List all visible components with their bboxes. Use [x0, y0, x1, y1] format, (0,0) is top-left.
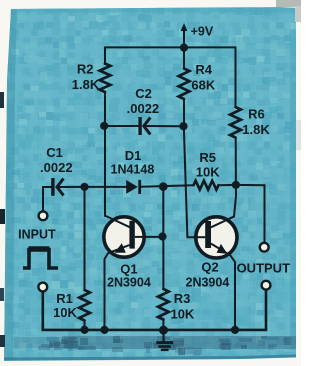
svg-text:2N3904: 2N3904 [107, 276, 151, 290]
wire: C1 right lead to R1 node [57, 186, 85, 188]
wire: R4 branch upper [183, 47, 185, 68]
svg-text:1.8K: 1.8K [72, 77, 100, 92]
svg-text:Q2: Q2 [201, 260, 218, 275]
wire: Q2 emitter to rail [230, 255, 235, 330]
resistor R2 [100, 64, 111, 93]
resistor R5 [194, 181, 219, 190]
wire: R4 bottom to C2 node [183, 99, 185, 126]
wire: R2 bottom to Q1 collector [104, 92, 106, 216]
transistor Q2 emitter arrow [217, 244, 228, 254]
transistor Q1 emitter line inside [108, 245, 130, 253]
capacitor C1 curved plate [57, 179, 64, 196]
transistor Q1 emitter arrow [115, 243, 126, 253]
wire: R2 branch upper [104, 47, 106, 64]
svg-text:.0022: .0022 [40, 160, 73, 175]
junction node C1 / R1 [80, 183, 88, 191]
transistor Q2 circle [196, 217, 237, 258]
wire: R1 bottom to rail [84, 321, 86, 330]
resistor R3 [158, 289, 169, 320]
diode D1 cathode bar [138, 180, 141, 194]
wire: R1 branch from C1 node [84, 187, 86, 290]
wire: Q2 collector lead [211, 185, 236, 227]
junction node rail Q1 emitter [100, 326, 108, 334]
input pulse waveform [23, 250, 58, 269]
wire: R5 to collector node [219, 184, 236, 186]
wire: input lower terminal drop to rail [43, 292, 85, 330]
junction node +9V / R4 [180, 44, 188, 52]
svg-text:C1: C1 [46, 145, 63, 160]
transistor Q1 base line inside [135, 236, 145, 238]
wire: R6 bottom to collector node [235, 138, 237, 185]
transistor Q1 base bar [129, 221, 134, 249]
junction node rail Q2 emitter [231, 326, 239, 334]
wire: C2 left lead [104, 125, 139, 127]
svg-text:10K: 10K [196, 165, 220, 180]
svg-text:10K: 10K [170, 306, 194, 321]
wire: output node to upper terminal [236, 185, 265, 243]
svg-text:.0022: .0022 [127, 101, 160, 116]
svg-text:+9V: +9V [191, 25, 214, 39]
dark lower rim of panel [4, 355, 296, 361]
svg-text:10K: 10K [53, 305, 77, 320]
wire: ground rail [85, 290, 267, 330]
resistor R4 [179, 69, 190, 100]
diode D1 triangle [126, 180, 138, 194]
svg-text:68K: 68K [191, 77, 215, 92]
junction node C2 left / R2 line [100, 122, 108, 130]
terminal output lower [262, 281, 271, 290]
capacitor C1 straight plate [51, 178, 54, 196]
wire: C1 left lead and input terminal drop [43, 187, 51, 211]
junction node rail R1 [80, 326, 88, 334]
svg-text:R5: R5 [199, 150, 216, 165]
transistor Q2 base bar [205, 221, 211, 248]
ghost band wash [62, 336, 296, 349]
capacitor C2 straight plate [138, 117, 141, 135]
wire: Q1 emitter to rail [105, 253, 109, 330]
+9V supply arrow stem [183, 29, 185, 47]
capacitor C2 curved plate [144, 118, 151, 135]
transistor Q1 circle [104, 217, 144, 257]
wire: R6 branch upper [235, 47, 237, 107]
junction node D1 / R5 / R3 line [159, 182, 168, 191]
terminal input lower [38, 283, 47, 292]
wire: C2 right lead [147, 125, 184, 127]
svg-text:R2: R2 [77, 61, 94, 76]
transistor Q2 base line inside [194, 236, 205, 238]
wire: Q1 base lead [135, 236, 164, 238]
wire: D1 cathode to R5 [141, 185, 194, 187]
svg-text:2N3904: 2N3904 [186, 276, 230, 290]
transistor Q2 collector line inside [211, 217, 234, 228]
svg-text:OUTPUT: OUTPUT [237, 261, 291, 276]
svg-text:R3: R3 [174, 291, 191, 306]
terminal output upper [260, 243, 269, 252]
grey blotch top-right margin [276, 0, 301, 7]
ground symbol [162, 330, 164, 342]
svg-text:Q1: Q1 [120, 262, 137, 277]
junction node Q1 base [158, 232, 166, 240]
wire: +9V top rail [105, 46, 236, 48]
wire: R3 bottom to ground rail [162, 320, 164, 331]
junction node R5 / R6 / Q2 collector / output [232, 181, 240, 189]
resistor R6 [230, 107, 241, 138]
svg-text:R1: R1 [56, 291, 73, 306]
transistor Q1 collector line inside [105, 216, 130, 228]
svg-text:D1: D1 [125, 148, 142, 163]
transistor Q2 emitter line inside [211, 244, 230, 256]
wire: Q1 base node vertical to R3 [162, 187, 164, 289]
svg-text:INPUT: INPUT [18, 228, 56, 242]
terminal input upper [39, 211, 48, 220]
wire: Q2 base line from C2/R4 node [184, 126, 206, 237]
svg-text:1.8K: 1.8K [242, 122, 270, 137]
svg-text:C2: C2 [135, 86, 152, 101]
junction node C2 right / R4 / Q2 base [179, 122, 187, 130]
svg-text:1N4148: 1N4148 [111, 163, 155, 177]
wire: R1 node to D1 anode [85, 186, 127, 188]
page margin black marks on left edge [0, 92, 4, 108]
junction node rail ground [159, 326, 168, 335]
+9V arrowhead [181, 23, 188, 31]
svg-text:R4: R4 [195, 62, 212, 77]
resistor R1 [79, 290, 90, 321]
svg-text:R6: R6 [248, 106, 265, 121]
